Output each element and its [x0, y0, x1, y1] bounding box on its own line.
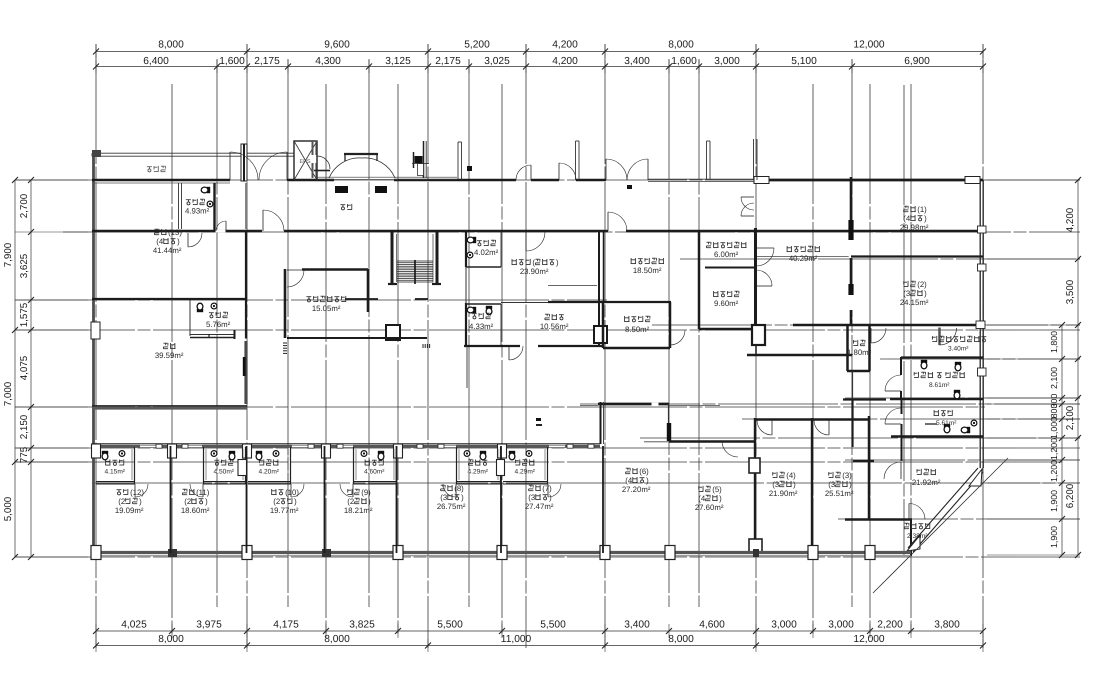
svg-text:3,000: 3,000 — [771, 620, 797, 631]
svg-text:9.60m²: 9.60m² — [714, 299, 739, 308]
svg-text:40.29m²: 40.29m² — [789, 254, 818, 263]
svg-text:(4: (4 — [156, 237, 164, 246]
svg-text:): ) — [177, 237, 180, 246]
svg-text:24.15m²: 24.15m² — [900, 298, 929, 307]
svg-text:5.76m²: 5.76m² — [206, 320, 231, 329]
svg-text:(4): (4) — [786, 471, 796, 480]
svg-text:4,200: 4,200 — [552, 56, 578, 67]
svg-text:23.90m²: 23.90m² — [520, 267, 549, 276]
svg-text:6.00m²: 6.00m² — [714, 250, 739, 259]
svg-text:4,200: 4,200 — [552, 40, 578, 51]
svg-text:2,175: 2,175 — [254, 56, 280, 67]
svg-text:3,800: 3,800 — [934, 620, 960, 631]
svg-text:800: 800 — [1049, 404, 1059, 419]
svg-text:4,300: 4,300 — [315, 56, 341, 67]
svg-text:(12): (12) — [130, 488, 144, 497]
svg-text:EPS: EPS — [299, 159, 310, 165]
svg-text:(2: (2 — [118, 497, 125, 506]
svg-text:4.60m²: 4.60m² — [364, 469, 385, 476]
svg-text:(3): (3) — [842, 471, 852, 480]
svg-text:3,400: 3,400 — [624, 620, 650, 631]
svg-text:): ) — [556, 258, 559, 267]
svg-text:4,175: 4,175 — [273, 620, 299, 631]
svg-text:4.29m²: 4.29m² — [514, 469, 535, 476]
svg-text:2,175: 2,175 — [435, 56, 461, 67]
svg-text:(5): (5) — [712, 485, 722, 494]
svg-text:4.50m²: 4.50m² — [213, 469, 234, 476]
svg-text:6,900: 6,900 — [904, 56, 930, 67]
svg-text:7,000: 7,000 — [3, 381, 14, 406]
svg-text:18.60m²: 18.60m² — [181, 506, 210, 515]
svg-text:3.40m²: 3.40m² — [948, 346, 969, 353]
svg-text:27.20m²: 27.20m² — [622, 485, 651, 494]
svg-text:1,575: 1,575 — [19, 302, 30, 327]
svg-text:29.98m²: 29.98m² — [900, 223, 929, 232]
svg-text:(3: (3 — [440, 493, 447, 502]
svg-text:3,400: 3,400 — [624, 56, 650, 67]
svg-text:(3: (3 — [903, 289, 910, 298]
svg-text:): ) — [849, 480, 852, 489]
svg-text:1,600: 1,600 — [219, 56, 245, 67]
svg-text:27.47m²: 27.47m² — [525, 502, 554, 511]
svg-text:): ) — [549, 493, 552, 502]
svg-text:(10): (10) — [285, 488, 299, 497]
svg-text:3,825: 3,825 — [349, 620, 375, 631]
svg-text:4,025: 4,025 — [121, 620, 147, 631]
svg-text:(8): (8) — [454, 484, 464, 493]
svg-text:41.44m²: 41.44m² — [153, 246, 182, 255]
svg-text:12,000: 12,000 — [853, 634, 884, 645]
svg-text:(7): (7) — [542, 484, 552, 493]
svg-text:(13): (13) — [168, 228, 182, 237]
svg-text:4.02m²: 4.02m² — [474, 248, 499, 257]
svg-text:(11): (11) — [196, 488, 210, 497]
svg-text:): ) — [294, 497, 297, 506]
svg-text:1,600: 1,600 — [671, 56, 697, 67]
svg-text:1.80m²: 1.80m² — [847, 348, 872, 357]
svg-text:39.59m²: 39.59m² — [155, 351, 184, 360]
svg-text:): ) — [646, 476, 649, 485]
svg-text:1,800: 1,800 — [1049, 331, 1059, 353]
svg-text:19.77m²: 19.77m² — [270, 506, 299, 515]
svg-text:3,625: 3,625 — [19, 253, 30, 278]
svg-text:18.50m²: 18.50m² — [633, 266, 662, 275]
svg-text:5.61m²: 5.61m² — [936, 420, 957, 427]
svg-text:(3: (3 — [528, 493, 535, 502]
svg-text:5,200: 5,200 — [464, 40, 490, 51]
svg-text:8,000: 8,000 — [668, 40, 694, 51]
svg-text:4.20m²: 4.20m² — [258, 469, 279, 476]
svg-text:(1): (1) — [917, 205, 927, 214]
svg-text:2,100: 2,100 — [1049, 367, 1059, 389]
svg-text:(3: (3 — [828, 480, 835, 489]
svg-text:(4: (4 — [698, 494, 706, 503]
svg-text:(3: (3 — [772, 480, 779, 489]
svg-text:1,200: 1,200 — [1049, 460, 1059, 482]
svg-text:(4: (4 — [625, 476, 633, 485]
svg-text:8,000: 8,000 — [158, 634, 184, 645]
svg-text:4.29m²: 4.29m² — [467, 469, 488, 476]
svg-text:8,000: 8,000 — [668, 634, 694, 645]
svg-text:1,000: 1,000 — [1049, 417, 1059, 439]
svg-text:2,150: 2,150 — [19, 414, 30, 439]
svg-text:(: ( — [532, 258, 535, 267]
svg-text:5,500: 5,500 — [540, 620, 566, 631]
svg-text:2,700: 2,700 — [19, 193, 30, 218]
svg-text:21.92m²: 21.92m² — [912, 478, 941, 487]
svg-text:1,200: 1,200 — [1049, 438, 1059, 460]
svg-text:(9): (9) — [361, 488, 371, 497]
svg-text:(2: (2 — [273, 497, 280, 506]
svg-text:(6): (6) — [639, 467, 649, 476]
svg-text:1,900: 1,900 — [1049, 526, 1059, 548]
svg-text:25.51m²: 25.51m² — [825, 489, 854, 498]
svg-text:2,200: 2,200 — [877, 620, 903, 631]
svg-text:3,500: 3,500 — [1065, 279, 1076, 304]
svg-text:8,000: 8,000 — [158, 40, 184, 51]
svg-text:4,600: 4,600 — [699, 620, 725, 631]
svg-text:): ) — [924, 289, 927, 298]
svg-text:27.60m²: 27.60m² — [695, 503, 724, 512]
svg-text:7,900: 7,900 — [3, 242, 14, 267]
svg-text:15.05m²: 15.05m² — [312, 304, 341, 313]
svg-text:4.93m²: 4.93m² — [185, 207, 210, 216]
svg-text:): ) — [924, 214, 927, 223]
svg-text:19.09m²: 19.09m² — [115, 506, 144, 515]
svg-text:8.50m²: 8.50m² — [625, 325, 650, 334]
svg-text:): ) — [719, 494, 722, 503]
svg-text:3,975: 3,975 — [196, 620, 222, 631]
svg-text:2.38m²: 2.38m² — [907, 533, 928, 540]
svg-text:4.33m²: 4.33m² — [469, 322, 494, 331]
svg-text:1,900: 1,900 — [1049, 490, 1059, 512]
svg-text:(2): (2) — [917, 280, 927, 289]
svg-text:4,200: 4,200 — [1065, 207, 1076, 232]
svg-text:8.61m²: 8.61m² — [929, 382, 950, 389]
svg-text:775: 775 — [19, 446, 30, 463]
svg-text:26.75m²: 26.75m² — [437, 502, 466, 511]
svg-text:): ) — [793, 480, 796, 489]
svg-text:11,000: 11,000 — [501, 634, 532, 645]
svg-text:5,000: 5,000 — [3, 496, 14, 521]
svg-text:5,100: 5,100 — [791, 56, 817, 67]
svg-text:10.56m²: 10.56m² — [540, 322, 569, 331]
svg-text:): ) — [368, 497, 371, 506]
svg-text:(4: (4 — [903, 214, 911, 223]
svg-text:2,100: 2,100 — [1065, 405, 1076, 430]
svg-text:3,000: 3,000 — [714, 56, 740, 67]
svg-text:18.21m²: 18.21m² — [344, 506, 373, 515]
svg-text:4.15m²: 4.15m² — [104, 469, 125, 476]
svg-text:): ) — [139, 497, 142, 506]
svg-text:12,000: 12,000 — [853, 40, 884, 51]
svg-text:): ) — [205, 497, 208, 506]
svg-text:21.90m²: 21.90m² — [769, 489, 798, 498]
svg-text:4,075: 4,075 — [19, 355, 30, 380]
svg-text:9,600: 9,600 — [324, 40, 350, 51]
svg-text:3,025: 3,025 — [484, 56, 510, 67]
svg-text:): ) — [461, 493, 464, 502]
svg-text:(2: (2 — [347, 497, 354, 506]
svg-text:3,000: 3,000 — [828, 620, 854, 631]
svg-text:8,000: 8,000 — [324, 634, 350, 645]
svg-text:3,125: 3,125 — [385, 56, 411, 67]
svg-text:5,500: 5,500 — [437, 620, 463, 631]
svg-text:6,400: 6,400 — [143, 56, 169, 67]
svg-text:6,200: 6,200 — [1065, 483, 1076, 508]
svg-text:(2: (2 — [184, 497, 191, 506]
